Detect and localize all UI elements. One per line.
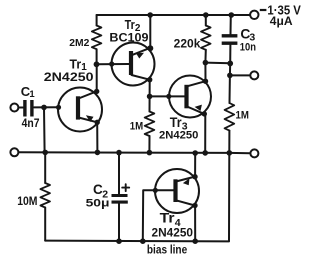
wire Tr4 collector drop <box>194 206 196 242</box>
junction node 220k / Tr3 collector <box>203 60 209 66</box>
wire 220k bottom to C3 column <box>205 62 230 65</box>
junction node Tr3 base at circle <box>166 94 171 99</box>
svg-text:50μ: 50μ <box>86 198 110 210</box>
capacitor C2 plates <box>112 196 128 203</box>
transistor Tr2 leads <box>131 48 150 97</box>
transistor Tr2 circle <box>112 43 155 86</box>
svg-text:10M: 10M <box>17 196 37 208</box>
resistor 1M left <box>148 96 150 152</box>
wire node A to Tr2 base <box>96 63 128 65</box>
label -1.35V dash <box>260 9 267 11</box>
svg-text:220k: 220k <box>174 39 201 51</box>
junction node Tr2 collector / 1M / Tr3 base <box>147 94 153 100</box>
junction node Tr1 base at circle <box>56 105 61 110</box>
wire Tr3 collector riser <box>204 63 206 82</box>
transistor Tr4 circle <box>155 169 199 213</box>
svg-text:2N4250: 2N4250 <box>44 70 94 84</box>
wire bias line rail <box>45 153 229 242</box>
capacitor C3 leads <box>229 15 232 75</box>
resistor 2M2 <box>96 15 98 64</box>
terminal input C1 <box>10 104 18 112</box>
C2 plus sign <box>122 184 129 191</box>
Tr4 emitter arrow (PNP, points to bar) <box>183 178 190 185</box>
transistor Tr3 circle <box>169 76 211 118</box>
junction node C1 / 10M column <box>41 105 47 111</box>
svg-text:1M: 1M <box>130 121 143 133</box>
svg-text:Tr: Tr <box>170 115 182 130</box>
capacitor C3 plates <box>222 36 238 43</box>
junction node mid rail / Tr4 emitter <box>192 150 198 156</box>
junction node bias line / Tr4 collector <box>192 238 198 244</box>
junction node Tr1 collector exit <box>94 89 99 94</box>
junction node top rail / Tr2 emitter <box>147 12 153 18</box>
svg-text:4μA: 4μA <box>270 16 293 28</box>
junction node Tr1 emitter exit <box>95 120 100 125</box>
Tr1 base bar <box>76 96 80 119</box>
wire Tr3 emitter drop <box>204 114 206 153</box>
junction node Tr3 emitter exit <box>202 111 207 116</box>
junction node bias line / Tr4 base <box>140 238 146 244</box>
junction node Tr2 collector exit <box>147 77 152 82</box>
svg-text:2N4250: 2N4250 <box>152 226 194 240</box>
terminal input lower <box>10 148 18 156</box>
svg-text:10n: 10n <box>240 42 256 54</box>
wire Tr3 base feed <box>150 95 185 97</box>
wire mid rail <box>18 152 250 153</box>
transistor Tr4 leads <box>176 177 195 206</box>
wire Tr4 emitter riser <box>194 153 196 177</box>
svg-text:Tr: Tr <box>160 210 176 226</box>
svg-text:BC109: BC109 <box>109 30 148 44</box>
junction node mid rail / 10M <box>42 150 48 156</box>
junction node mid rail / 1M left <box>147 150 153 156</box>
svg-text:1: 1 <box>29 89 35 100</box>
Tr2 emitter arrow (NPN, points out) <box>136 53 144 59</box>
junction node Tr4 collector exit <box>192 203 197 208</box>
Tr1 emitter arrow (PNP, points to bar) <box>86 115 94 122</box>
transistor Tr1 leads <box>79 91 98 122</box>
junction node Tr4 base at circle <box>153 188 158 193</box>
terminal output lower <box>250 149 258 157</box>
transistor Tr1 circle <box>58 88 102 132</box>
junction node bias line / C2 <box>116 238 122 244</box>
wire top supply rail <box>97 14 250 16</box>
junction node top rail / 220k <box>203 12 209 18</box>
Tr3 emitter arrow (PNP, points to bar) <box>195 105 202 111</box>
junction node Tr4 emitter exit <box>192 174 197 179</box>
terminal output upper <box>250 71 258 79</box>
wire Tr4 base to bias line <box>143 190 176 241</box>
terminal supply <box>250 11 258 19</box>
svg-text:4n7: 4n7 <box>22 118 40 130</box>
capacitor C1 leads <box>18 106 57 108</box>
capacitor C1 plates <box>25 100 32 117</box>
junction node top rail / C3 <box>229 12 235 18</box>
junction node mid rail / C2 <box>116 150 122 156</box>
resistor 10M <box>44 152 46 240</box>
junction node output tap <box>227 73 233 79</box>
svg-text:1M: 1M <box>236 110 249 122</box>
wire Tr2 emitter to rail <box>149 15 151 48</box>
resistor 220k <box>204 15 206 63</box>
junction node Tr3 collector exit <box>203 79 208 84</box>
junction node mid rail / Tr1 emitter <box>95 150 101 156</box>
junction node mid rail / Tr3 emitter <box>202 150 208 156</box>
transistor Tr3 leads <box>187 81 206 114</box>
Tr3 base bar <box>184 85 188 109</box>
wire Tr1 collector riser <box>96 64 98 91</box>
svg-text:bias line: bias line <box>147 243 188 256</box>
wire to output terminal upper <box>230 74 250 76</box>
Tr2 base bar <box>129 51 133 75</box>
junction node A (2M2 / Tr1 collector / Tr2 base) <box>94 61 100 67</box>
junction node Tr2 base at circle <box>109 61 114 66</box>
svg-text:2M2: 2M2 <box>69 37 89 49</box>
capacitor C2 leads <box>118 153 120 242</box>
svg-text:2N4250: 2N4250 <box>159 130 198 142</box>
wire Tr1 emitter drop <box>96 122 98 152</box>
junction node C3 bottom <box>227 61 233 67</box>
junction node Tr2 emitter exit <box>147 45 153 51</box>
resistor 1M right <box>228 75 231 152</box>
wire C1 junction drop <box>43 107 46 152</box>
Tr4 base bar <box>173 179 177 202</box>
junction node mid rail / 1M right <box>227 150 233 156</box>
